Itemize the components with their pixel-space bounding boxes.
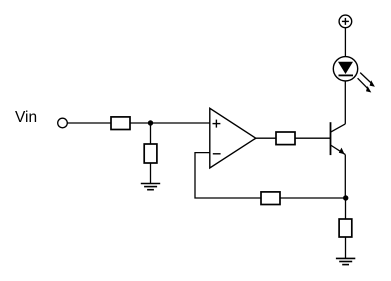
wire power to LED — [344, 28, 346, 57]
wire junction down to R2 — [150, 123, 152, 144]
wire input terminal to R1 — [67, 122, 111, 124]
wire op-amp output to R4 — [256, 137, 276, 139]
LED emission arrow 2 — [358, 78, 372, 92]
wire node to R5 — [345, 198, 347, 219]
wire R1 to op-amp + input — [130, 122, 210, 124]
resistor R1 (series input) — [111, 117, 130, 130]
wire R5 to ground — [345, 237, 347, 258]
resistor R4 (base) — [276, 132, 295, 145]
power supply + terminal — [339, 15, 352, 28]
wire collector up to LED — [344, 81, 346, 124]
LED D1 — [333, 57, 357, 81]
op-amp U1 — [210, 108, 256, 168]
resistor R3 (feedback) — [261, 192, 280, 205]
resistor R5 (emitter) — [339, 219, 352, 237]
ground (input divider) — [141, 184, 160, 190]
LED emission arrow 1 — [360, 73, 375, 87]
svg-text:Vin: Vin — [15, 109, 37, 126]
transistor Q1 (NPN) — [331, 122, 346, 155]
wire R2 to ground — [150, 163, 152, 184]
resistor R2 (shunt to ground) — [144, 144, 157, 163]
input terminal — [58, 118, 68, 128]
node junction dot — [148, 120, 153, 125]
wire R3 to emitter node — [280, 197, 346, 199]
ground (emitter) — [336, 258, 355, 264]
wire emitter down to node — [344, 155, 346, 198]
wire op-amp inverting input feedback (left + down + right) — [195, 153, 261, 198]
wire R4 to transistor base — [295, 137, 331, 139]
node emitter junction dot — [343, 195, 348, 200]
